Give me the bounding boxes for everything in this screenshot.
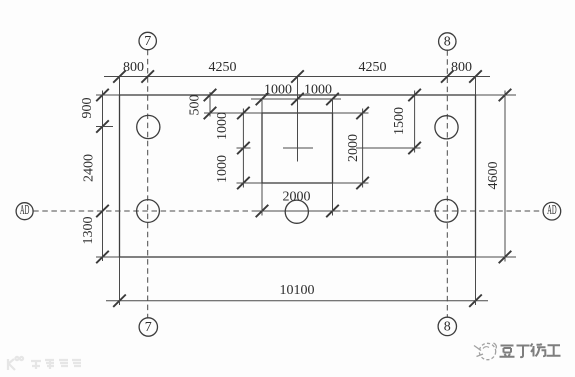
axis line AD (horizontal dashed) xyxy=(33,210,543,212)
center cross horizontal xyxy=(283,147,313,149)
axis bubble AD left xyxy=(16,203,33,220)
svg-text:800: 800 xyxy=(451,60,472,75)
column circle AD-right xyxy=(435,199,458,222)
svg-text:800: 800 xyxy=(123,60,144,75)
2000 chain right of opening xyxy=(333,107,369,189)
sub dimension line 1000/1000 above opening xyxy=(251,93,341,113)
watermark bottom-left (faint) xyxy=(8,357,81,370)
svg-text:2000: 2000 xyxy=(283,190,311,205)
right dimension chain 4600 xyxy=(476,89,517,263)
column circle top-left xyxy=(137,115,160,138)
svg-text:AD: AD xyxy=(547,203,557,218)
1500 chain xyxy=(356,89,421,154)
column circle bottom-center xyxy=(285,200,308,223)
svg-text:10100: 10100 xyxy=(280,283,315,298)
svg-text:1000: 1000 xyxy=(304,83,332,98)
svg-text:1300: 1300 xyxy=(81,217,96,245)
svg-text:7: 7 xyxy=(144,34,151,49)
axis bubble 7 top xyxy=(139,32,156,49)
svg-text:AD: AD xyxy=(20,203,30,218)
top dimension line 800/4250/4250/800 xyxy=(104,70,490,95)
svg-text:1500: 1500 xyxy=(392,107,407,135)
svg-text:8: 8 xyxy=(444,35,451,50)
bottom 2000 dimension under opening xyxy=(254,183,341,217)
inner square opening xyxy=(262,113,333,183)
svg-text:2400: 2400 xyxy=(82,154,97,182)
svg-text:7: 7 xyxy=(145,320,152,335)
watermark text 豆丁施工 (drawn strokes) xyxy=(500,344,561,358)
500 chain left of opening xyxy=(204,89,262,119)
axis line 7 (vertical dashed) xyxy=(147,50,149,318)
column circle AD-left xyxy=(137,200,160,223)
axis bubble 8 top xyxy=(439,33,456,50)
svg-text:4250: 4250 xyxy=(209,60,237,75)
svg-text:1000: 1000 xyxy=(264,83,292,98)
outer foundation rectangle xyxy=(120,95,476,257)
bottom dimension line 10100 xyxy=(106,257,488,307)
watermark logo bottom-right (sketch bird) xyxy=(474,343,496,360)
axis bubble 7 bottom xyxy=(139,318,157,336)
svg-text:4250: 4250 xyxy=(359,60,387,75)
svg-text:8: 8 xyxy=(444,320,451,335)
axis bubble AD right xyxy=(543,202,561,220)
column circle top-right xyxy=(435,116,458,139)
svg-text:1000: 1000 xyxy=(215,112,230,140)
axis line 8 (vertical dashed) xyxy=(446,50,448,317)
svg-text:500: 500 xyxy=(188,95,203,116)
axis bubble 8 bottom xyxy=(438,317,456,335)
svg-text:900: 900 xyxy=(80,98,95,119)
svg-text:4600: 4600 xyxy=(486,162,501,190)
svg-text:1000: 1000 xyxy=(215,155,230,183)
center vertical line of opening xyxy=(297,77,299,162)
1000/1000 chain left of opening xyxy=(237,107,263,189)
left dimension chain 900/2400/1300 xyxy=(96,89,120,263)
